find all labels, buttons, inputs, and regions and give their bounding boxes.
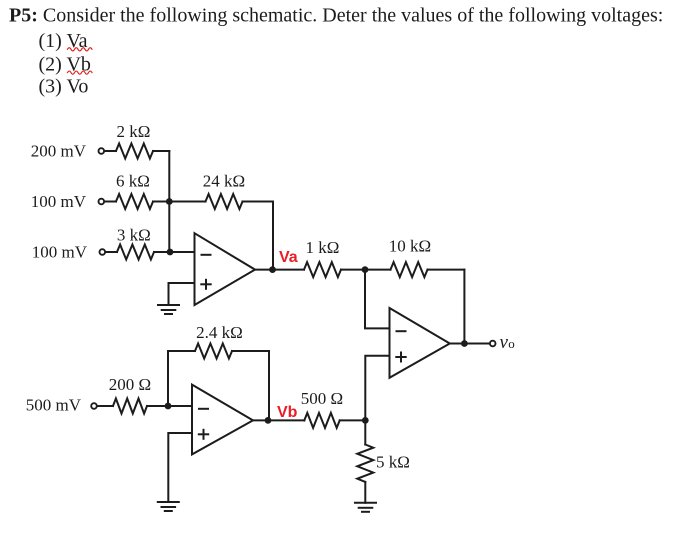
wire: R24k to right drop xyxy=(243,201,274,203)
resistor R 2k xyxy=(116,144,153,159)
svg-text:100 mV: 100 mV xyxy=(32,243,88,262)
resistor R 200 xyxy=(113,399,147,414)
ground G1 xyxy=(158,304,179,306)
op-amp U2 xyxy=(390,308,450,378)
svg-text:2 kΩ: 2 kΩ xyxy=(117,122,151,141)
wire: node to R 24k xyxy=(169,201,205,203)
wire: 100mV source to R 6k xyxy=(104,201,116,203)
squiggle under Vb xyxy=(68,71,93,74)
wire: 500mV source to R 200 xyxy=(97,405,113,407)
svg-text:24 kΩ: 24 kΩ xyxy=(203,172,245,191)
svg-text:o: o xyxy=(508,336,515,351)
svg-text:3 kΩ: 3 kΩ xyxy=(117,226,151,245)
node: Vb node xyxy=(265,417,272,424)
squiggle under Va xyxy=(68,48,93,51)
wire: opamp3 output to Vb node xyxy=(253,419,268,421)
svg-text:10 kΩ: 10 kΩ xyxy=(389,237,431,256)
wire: node to opamp1 inv input xyxy=(170,251,195,253)
svg-text:v: v xyxy=(500,332,509,353)
resistor R 10k feedback xyxy=(391,262,428,277)
wire: opamp1 +input to ground stub xyxy=(169,283,195,305)
wire: Va node to R 1k xyxy=(273,269,305,271)
resistor R 24k feedback xyxy=(206,194,243,209)
wire: feedback left rise xyxy=(168,351,195,406)
node: opamp2 noninv net xyxy=(362,417,369,424)
svg-text:(2) Vb: (2) Vb xyxy=(39,53,91,75)
svg-text:(3) Vo: (3) Vo xyxy=(39,76,89,98)
wire: R3k to inv node xyxy=(154,251,170,253)
wire: node to R 10k xyxy=(365,269,391,271)
op-amp U1 xyxy=(195,233,256,305)
wire: R200 to inv node xyxy=(147,405,168,407)
svg-text:P5: Consider the following sch: P5: Consider the following schematic. De… xyxy=(9,5,663,27)
wire: R1k to node xyxy=(341,269,365,271)
wire: R6k to node xyxy=(153,201,169,203)
wire: opamp1 output to Va node xyxy=(255,269,273,271)
wire: Vb node to R 500 xyxy=(268,419,304,421)
svg-text:Va: Va xyxy=(279,249,298,266)
wire: drop to opamp2 output xyxy=(463,270,465,344)
wire: vertical bus x=169 xyxy=(168,151,170,252)
terminal 200 mV xyxy=(99,148,105,154)
op-amp U3 xyxy=(192,385,253,455)
wire: 200mV source to R 2k xyxy=(104,150,116,152)
terminal 100 mV row2 xyxy=(99,199,105,205)
svg-text:Vb: Vb xyxy=(277,404,298,421)
resistor R 3k xyxy=(117,245,154,260)
terminal 500 mV xyxy=(91,403,97,409)
svg-text:100 mV: 100 mV xyxy=(31,192,87,211)
svg-text:500 mV: 500 mV xyxy=(26,396,82,415)
wire: node down to opamp2 inv input xyxy=(365,270,390,329)
node: opamp3 inv node xyxy=(165,403,172,410)
ground G3 xyxy=(355,502,376,504)
wire: to output terminal xyxy=(464,343,489,345)
resistor R 1k xyxy=(304,262,341,277)
resistor R 6k xyxy=(116,194,153,209)
node: inverting input node xyxy=(167,249,174,256)
svg-text:(1) Va: (1) Va xyxy=(39,30,88,52)
ground G2 xyxy=(158,501,179,503)
wire: R500 to node xyxy=(340,419,366,421)
svg-text:5 kΩ: 5 kΩ xyxy=(376,453,410,472)
wire: node to opamp3 inv input xyxy=(168,405,192,407)
svg-text:200 Ω: 200 Ω xyxy=(109,375,151,394)
node: opamp2 inv net xyxy=(362,266,369,273)
node: summing node row2 xyxy=(166,198,173,205)
wire: R5k to ground xyxy=(364,482,366,503)
terminal 100 mV row3 xyxy=(100,249,106,255)
svg-text:500 Ω: 500 Ω xyxy=(301,389,343,408)
wire: R10k to right drop xyxy=(428,269,465,271)
resistor R 5k xyxy=(357,445,373,482)
wire: node down to R 5k xyxy=(364,420,366,444)
terminal Vo xyxy=(490,341,496,347)
svg-text:2.4 kΩ: 2.4 kΩ xyxy=(196,323,243,342)
wire: R2k to node column xyxy=(153,150,169,152)
wire: feedback top right + drop to Vb xyxy=(232,351,269,420)
node: Va output node xyxy=(269,266,276,273)
wire: opamp2 +input down to Vb net xyxy=(365,356,389,421)
svg-text:1 kΩ: 1 kΩ xyxy=(306,238,340,257)
svg-text:6 kΩ: 6 kΩ xyxy=(116,172,150,191)
resistor R 500 xyxy=(304,413,339,428)
wire: opamp2 output xyxy=(450,343,465,345)
resistor R 2.4k feedback xyxy=(195,344,232,359)
node: Vo node xyxy=(461,340,468,347)
svg-text:200 mV: 200 mV xyxy=(31,142,87,161)
wire: drop to opamp1 output xyxy=(272,202,274,270)
wire: opamp3 +input to ground xyxy=(168,433,192,502)
wire: 100mV row3 to R 3k xyxy=(105,251,117,253)
